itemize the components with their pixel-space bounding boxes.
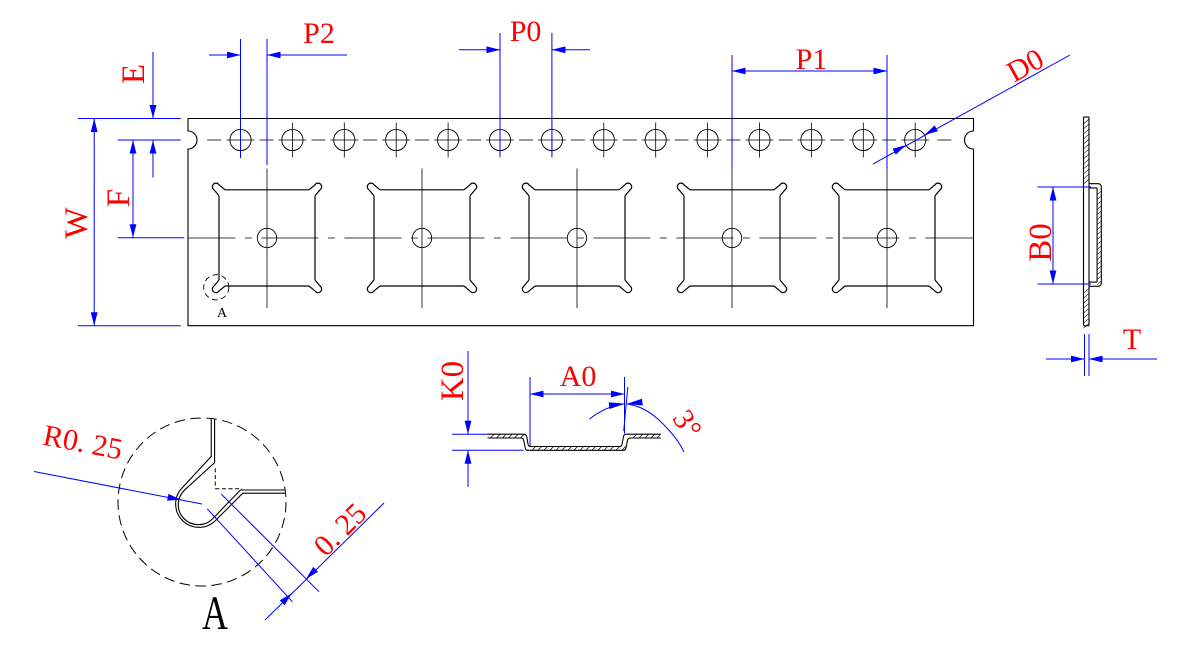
sprocket hole 6 bbox=[489, 129, 510, 150]
sprocket hole 9 bbox=[645, 129, 666, 150]
pocket 2 center hole bbox=[412, 228, 431, 247]
dimension B0 line with arrows bbox=[1052, 187, 1054, 284]
dimension P1 extension lines bbox=[731, 55, 733, 169]
svg-text:F: F bbox=[101, 189, 137, 207]
pocket 3 vertical centerline bbox=[576, 169, 578, 309]
svg-text:T: T bbox=[1123, 323, 1141, 356]
dimension P2 line with arrows bbox=[209, 54, 241, 56]
detail corner relief outer edge bbox=[176, 415, 290, 527]
svg-text:D0: D0 bbox=[1001, 42, 1049, 89]
pocket row horizontal centerline bbox=[188, 237, 974, 239]
dimension W extension lines bbox=[78, 118, 181, 120]
svg-text:K0: K0 bbox=[435, 361, 471, 401]
dimension K0 line with arrows bbox=[467, 351, 469, 434]
svg-text:0. 25: 0. 25 bbox=[307, 497, 373, 563]
pocket 5 vertical centerline bbox=[886, 169, 888, 309]
component pocket 4 bbox=[690, 189, 774, 191]
svg-text:3°: 3° bbox=[666, 404, 708, 445]
3 degree draft angle annotation bbox=[624, 387, 628, 431]
dimension E line with arrows bbox=[152, 52, 154, 119]
svg-text:R0. 25: R0. 25 bbox=[40, 419, 125, 467]
svg-text:P2: P2 bbox=[303, 17, 335, 50]
sprocket hole 7 bbox=[541, 129, 562, 150]
pocket 1 vertical centerline bbox=[266, 169, 268, 309]
dimension E extension line bbox=[118, 139, 181, 141]
side view hatching bbox=[1084, 119, 1090, 124]
sprocket hole 2 bbox=[282, 129, 303, 150]
pocket 3 corner reliefs bbox=[522, 183, 535, 196]
sprocket row centerline dashes bbox=[207, 139, 221, 141]
section view hatching bbox=[491, 434, 495, 438]
dimension A0 extension lines bbox=[529, 377, 531, 446]
pocket 5 center hole bbox=[877, 228, 896, 247]
section view lower profile bbox=[488, 438, 661, 450]
sprocket hole 8 bbox=[593, 129, 614, 150]
section view upper profile bbox=[488, 434, 661, 446]
svg-text:A: A bbox=[217, 306, 228, 321]
sprocket hole 3 bbox=[334, 129, 355, 150]
0.25 dimension extension lines bbox=[221, 494, 319, 592]
svg-text:E: E bbox=[116, 64, 152, 84]
pocket 5 corner reliefs bbox=[832, 183, 845, 196]
side view pocket bulge bbox=[1089, 184, 1101, 287]
R0.25 leader bbox=[34, 472, 202, 505]
component pocket 5 bbox=[845, 189, 929, 191]
sprocket hole 5 bbox=[438, 129, 459, 150]
svg-text:P0: P0 bbox=[510, 15, 542, 48]
pocket 2 corner reliefs bbox=[367, 183, 380, 196]
component pocket 2 bbox=[380, 189, 464, 191]
sprocket hole 11 bbox=[749, 129, 770, 150]
dimension T line with arrows bbox=[1046, 358, 1085, 360]
dimension W line with arrows bbox=[93, 119, 95, 326]
dimension P0 line with arrows bbox=[459, 49, 500, 51]
component pocket 3 bbox=[535, 189, 619, 191]
side view tape strip bbox=[1083, 117, 1085, 326]
pocket 3 center hole bbox=[567, 228, 586, 247]
dimension P2 extension lines bbox=[240, 39, 242, 158]
sprocket hole 4 bbox=[386, 129, 407, 150]
sprocket hole 13 bbox=[853, 129, 874, 150]
svg-text:A: A bbox=[202, 587, 228, 640]
dimension F line with arrows bbox=[132, 140, 134, 238]
dimension B0 extension lines bbox=[1038, 186, 1092, 188]
tape outline with end notches bbox=[188, 119, 974, 326]
0.25 dimension line with arrows bbox=[265, 503, 384, 620]
pocket 4 vertical centerline bbox=[731, 169, 733, 309]
pocket 1 corner reliefs bbox=[212, 183, 225, 196]
dimension P1 line with arrows bbox=[732, 70, 887, 72]
detail A marker circle on tape bbox=[204, 275, 229, 300]
dimension F extension line bbox=[118, 237, 185, 239]
dimension P0 extension lines bbox=[499, 33, 501, 156]
dimension A0 line with arrows bbox=[530, 393, 625, 395]
detail theoretical corner dashed lines bbox=[214, 468, 216, 488]
pocket 4 corner reliefs bbox=[677, 183, 690, 196]
detail view boundary dashed circle bbox=[118, 418, 286, 586]
sprocket hole 1 bbox=[230, 129, 251, 150]
sprocket hole 14 bbox=[905, 129, 926, 150]
sprocket hole 10 bbox=[697, 129, 718, 150]
pocket 2 vertical centerline bbox=[421, 169, 423, 309]
dimension T extension lines bbox=[1084, 334, 1086, 376]
svg-text:A0: A0 bbox=[560, 360, 597, 393]
dimension D0 leader bbox=[873, 55, 1070, 164]
svg-text:B0: B0 bbox=[1023, 223, 1059, 262]
pocket 4 center hole bbox=[722, 228, 741, 247]
dimension K0 extension lines bbox=[452, 433, 488, 435]
svg-text:W: W bbox=[59, 207, 95, 239]
sprocket hole 12 bbox=[801, 129, 822, 150]
detail corner relief inner edge bbox=[178, 415, 290, 525]
pocket 1 center hole bbox=[257, 228, 276, 247]
svg-text:P1: P1 bbox=[796, 43, 828, 76]
component pocket 1 bbox=[225, 189, 309, 191]
